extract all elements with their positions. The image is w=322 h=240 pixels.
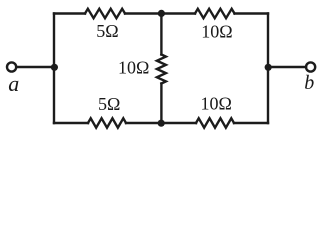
- resistor R3 10ohm middle vertical: [157, 55, 166, 84]
- wire middle branch top lead: [160, 14, 162, 55]
- wire right vertical: [267, 14, 269, 124]
- resistor R2 10ohm top: [195, 9, 235, 18]
- svg-text:10Ω: 10Ω: [118, 58, 149, 78]
- wire top middle: [125, 12, 195, 14]
- wire right node to b: [268, 66, 306, 68]
- resistor R1 5ohm top: [85, 9, 125, 18]
- svg-text:10Ω: 10Ω: [201, 22, 232, 42]
- junction right node: [265, 64, 272, 71]
- wire top-left lead: [54, 12, 85, 14]
- wire bottom-left lead: [54, 122, 88, 124]
- svg-text:b: b: [304, 72, 314, 94]
- wire bottom-right lead: [234, 122, 268, 124]
- terminal a: [7, 62, 16, 71]
- wire bottom middle: [126, 122, 196, 124]
- wire top-right lead: [235, 12, 269, 14]
- wire a to left node: [16, 66, 54, 68]
- wire left vertical: [53, 14, 55, 124]
- resistor R4 5ohm bottom: [88, 118, 126, 127]
- svg-text:5Ω: 5Ω: [98, 94, 120, 114]
- junction bottom node: [158, 120, 165, 127]
- terminal b: [306, 62, 315, 71]
- svg-text:a: a: [8, 71, 19, 96]
- resistor R5 10ohm bottom: [196, 118, 234, 127]
- svg-text:10Ω: 10Ω: [201, 94, 232, 114]
- junction left node: [51, 64, 58, 71]
- wire middle branch bottom lead: [160, 84, 162, 124]
- junction top node: [158, 10, 165, 17]
- svg-text:5Ω: 5Ω: [96, 21, 118, 41]
